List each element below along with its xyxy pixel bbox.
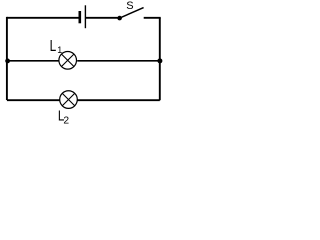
wire bottom <box>7 99 160 101</box>
wire middle branch left <box>7 60 59 62</box>
battery cell (short thick negative plate) <box>79 11 82 23</box>
wire top-left (battery left lead) <box>7 17 79 19</box>
wire middle branch right <box>77 60 160 62</box>
lamp L1 <box>59 52 77 70</box>
lamp L2 <box>60 91 78 109</box>
svg-text:L: L <box>50 36 57 54</box>
node junction right (middle branch) <box>157 58 162 63</box>
wire left vertical <box>6 17 8 100</box>
wire top-right (switch right lead) <box>144 17 161 19</box>
svg-text:2: 2 <box>63 116 69 124</box>
wire right vertical <box>159 18 161 100</box>
wire battery to switch <box>86 17 120 19</box>
node junction left (middle branch) <box>5 59 10 64</box>
svg-text:1: 1 <box>57 45 62 55</box>
switch S blade (open) <box>120 8 144 19</box>
svg-text:S: S <box>126 0 133 12</box>
battery cell (long thin positive plate) <box>84 5 86 28</box>
switch S pivot node <box>117 16 122 21</box>
